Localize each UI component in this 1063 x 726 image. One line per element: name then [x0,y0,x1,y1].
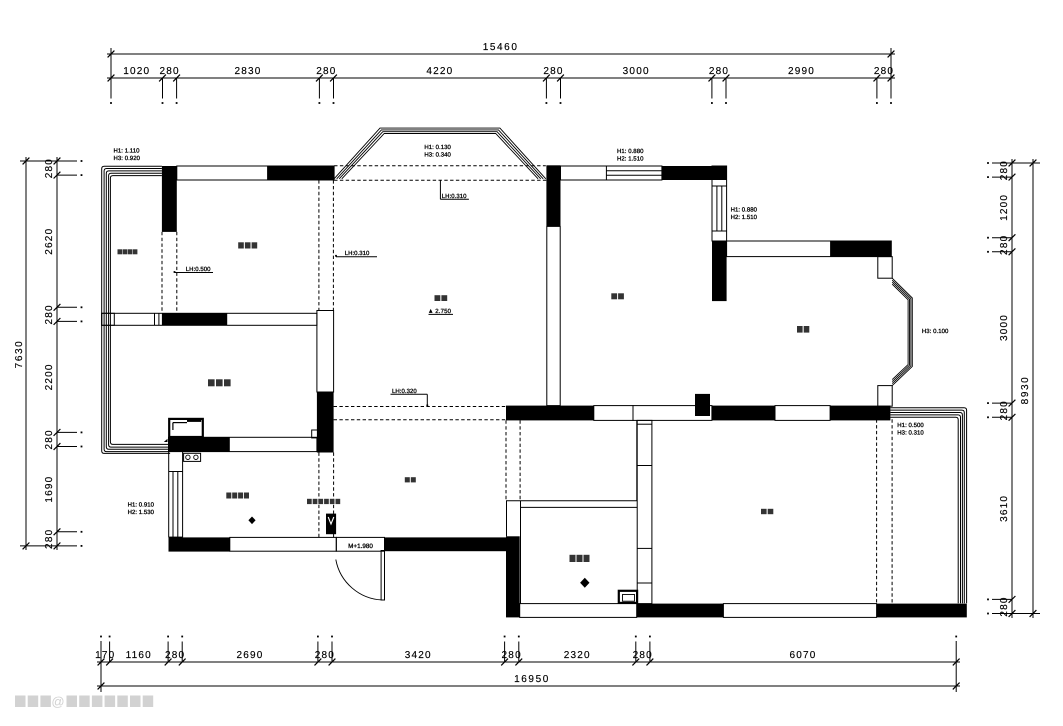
fridge / counter box [169,419,203,437]
wall black bath top west [506,406,594,421]
wall band bedroom door opening [775,406,830,421]
entry door swing arc [336,560,383,601]
electrical panel [326,514,336,535]
wall bath/bedroom (hollow, with joints) [637,420,652,603]
wall black segment study east [712,241,727,301]
dimension top segment line [107,77,895,79]
svg-text:2690: 2690 [236,650,263,661]
wall stub below east bay [878,386,892,407]
tick left boundary y=432.4 [54,429,61,436]
room label study [611,293,617,299]
svg-text:H3: 0.340: H3: 0.340 [424,151,451,158]
svg-text:280: 280 [44,429,55,449]
room label balcony NW [118,249,123,254]
svg-text:LH:0.310: LH:0.310 [442,193,467,200]
tick bottom boundary x=518.8 [515,659,522,666]
svg-text:280: 280 [999,160,1010,180]
tick right boundary y=177.1 [1009,174,1016,181]
shower step box [619,591,637,603]
tick left boundary y=307.3 [54,304,61,311]
svg-text:280: 280 [44,529,55,549]
svg-text:2620: 2620 [44,228,55,255]
tick bottom boundary x=504.6 [501,659,508,666]
annotation LH:0.320 with leader [391,393,428,395]
svg-text:LH:0.500: LH:0.500 [186,266,211,273]
svg-text:15460: 15460 [483,42,519,53]
svg-text:H1: 0.500: H1: 0.500 [897,422,924,429]
small white pier at west end [102,313,115,325]
bedroom east window wrap (5-line rounded) [890,408,966,604]
wall black segment top-left [267,166,334,180]
tick bottom boundary x=182.2 [179,659,186,666]
wall band corridor section [633,406,712,421]
svg-text:280: 280 [999,596,1010,616]
svg-text:LH:0.310: LH:0.310 [345,250,370,257]
tick left boundary y=161.0 [54,158,61,165]
svg-text:1200: 1200 [999,194,1010,221]
wall black segment bedroom2 top [162,313,227,325]
entry door leaf [381,551,384,601]
window in study east wall (4-line) [716,186,718,231]
column top-center concrete [546,165,560,226]
svg-text:280: 280 [999,400,1010,420]
svg-text:280: 280 [316,66,336,77]
svg-text:1690: 1690 [44,476,55,503]
living room level mark 2.750 [429,309,433,313]
svg-text:LH:0.320: LH:0.320 [392,388,417,395]
kitchen west wall [168,452,170,538]
room label dining [405,477,410,482]
tick top boundary x=876.9 [874,75,881,82]
wall black segment kitchen top [169,437,230,451]
dashed pair laundry west opening [505,420,507,500]
svg-text:280: 280 [999,235,1010,255]
entry door head box [336,537,384,551]
wall black entry bottom east [385,537,507,551]
svg-text:16950: 16950 [514,674,550,685]
svg-text:7630: 7630 [14,340,25,369]
wall band bedroom bottom [723,604,876,618]
tick right boundary y=237.7 [1009,234,1016,241]
svg-text:280: 280 [543,66,563,77]
shaft block [695,394,710,416]
svg-text:280: 280 [315,650,335,661]
wall black kitchen bottom [169,537,230,551]
west balcony window wrap (5-line rounded) [102,166,170,453]
dashed line bay north outer [334,165,546,167]
dimension left overall line 7630 [25,157,27,550]
svg-text:H1: 0.130: H1: 0.130 [424,144,451,151]
wall black segment south of study [712,406,775,421]
svg-text:H1: 0.880: H1: 0.880 [617,148,644,155]
dimension bottom overall line 16950 [97,685,960,687]
svg-text:8930: 8930 [1020,376,1031,405]
room label living room [435,295,441,301]
hall cabinet label [307,499,312,504]
wall top band of NE bedroom [727,241,892,257]
svg-text:H2: 1.510: H2: 1.510 [731,214,758,221]
tick top boundary x=546.4 [543,75,550,82]
tick left boundary y=531.8 [54,528,61,535]
tick right boundary y=163.0 [1009,160,1016,167]
wall living/study (hollow) [547,226,560,405]
column top-left concrete [162,166,177,232]
wall black bath west [506,536,520,617]
svg-text:280: 280 [165,650,185,661]
svg-text:3610: 3610 [999,495,1010,522]
tick bottom boundary x=649.9 [647,659,654,666]
wall black bedroom bottom east [877,604,967,618]
svg-text:H1: 0.880: H1: 0.880 [731,207,758,214]
annotation LH:0.310 (bay) with leader [439,180,441,199]
room label bedroom NE [797,326,803,333]
dashed line living south a [334,406,506,408]
east bay window (4-line) [892,278,912,385]
tick top boundary x=176.6 [173,75,180,82]
cooktop [184,453,201,461]
svg-text:3000: 3000 [623,66,650,77]
tick left boundary y=446.5 [54,443,61,450]
window top-right W in wall (4-line) [606,170,662,172]
kitchen west window (4-line) [172,472,174,538]
wall top band left section [177,166,334,180]
svg-text:2990: 2990 [788,66,815,77]
wall band entry bottom [230,537,336,551]
wall black segment NE bedroom top [830,241,891,257]
marker triangle at kitchen corner [164,439,168,442]
interior wall column strip upper (hollow) [317,311,334,393]
room label bedroom W [208,379,215,386]
dimension right segment line [1011,159,1013,618]
tick top boundary x=726.0 [723,75,730,82]
door notch at column west face [312,430,320,438]
tick right boundary y=403.1 [1009,400,1016,407]
watermark gray [15,696,26,708]
svg-text:280: 280 [44,304,55,324]
bath inner partition lines [506,500,637,502]
dashed pair kitchen/dining opening [318,453,320,538]
tick bottom boundary x=168.1 [165,659,172,666]
tick left boundary y=175.1 [54,172,61,179]
tick right boundary y=417.3 [1009,414,1016,421]
wall band bedroom2 top (y313) [102,313,317,325]
svg-text:4220: 4220 [426,66,453,77]
tick top boundary x=333.5 [330,75,337,82]
dashed line bay north inner [334,179,560,181]
svg-text:H2: 1.530: H2: 1.530 [128,509,155,516]
dimension top overall line 15460 [107,53,895,55]
wall black segment top-right [662,166,727,180]
wall band bath bottom [520,604,637,618]
room label bedroom SE [761,509,767,514]
tick bottom boundary x=332.0 [329,659,336,666]
svg-text:280: 280 [159,66,179,77]
svg-text:280: 280 [709,66,729,77]
svg-text:280: 280 [502,650,522,661]
tick bottom boundary x=109.6 [106,659,113,666]
svg-text:3000: 3000 [999,314,1010,341]
svg-text:H2: 1.510: H2: 1.510 [617,155,644,162]
dashed pair living west opening [318,180,320,310]
column mid concrete [317,392,334,453]
dimension bottom segment line [97,661,960,663]
tick top boundary x=162.5 [159,75,166,82]
kitchen floor drain [248,517,255,525]
annotation LH:0.500 with leader [174,271,176,273]
tick bottom boundary x=101.0 [98,659,105,666]
svg-text:1160: 1160 [126,650,152,661]
tick bottom boundary x=956.2 [953,659,960,666]
north bay window of living room (4-line) [334,128,546,179]
svg-text:280: 280 [874,66,894,77]
tick bottom boundary x=635.8 [632,659,639,666]
svg-text:3420: 3420 [405,650,432,661]
svg-text:2200: 2200 [44,363,55,390]
svg-text:H3: 0.310: H3: 0.310 [897,429,924,436]
room label kitchen [226,493,231,499]
tick left boundary y=545.9 [54,543,61,550]
wall black bedroom bottom west [637,604,724,618]
wall black segment bedroom top [830,406,890,421]
svg-text:H3: 0.920: H3: 0.920 [114,155,141,162]
svg-text:170: 170 [95,650,115,661]
divider in bedroom2 top wall [154,313,156,325]
room label bedroom NW [238,242,244,248]
svg-text:280: 280 [633,650,653,661]
bath floor drain [580,578,589,588]
svg-text:2830: 2830 [234,66,261,77]
dimension left segment line [56,157,58,550]
tick top boundary x=560.5 [557,75,564,82]
dimension right overall line 8930 [1032,159,1034,618]
dashed pair bedroom bay line [876,419,878,603]
room label bathroom [570,555,576,562]
tick left boundary y=321.4 [54,318,61,325]
tick top boundary x=711.9 [709,75,716,82]
tick right boundary y=251.8 [1009,248,1016,255]
tick top boundary x=111.0 [108,75,115,82]
wall band bath top window section [594,406,633,421]
svg-text:M+1.980: M+1.980 [348,543,373,550]
tick right boundary y=613.5 [1009,610,1016,617]
dashed line living south b [334,419,506,421]
svg-text:6070: 6070 [789,650,816,661]
tick top boundary x=891.0 [888,75,895,82]
svg-text:H1: 0.910: H1: 0.910 [128,502,155,509]
svg-text:1020: 1020 [123,66,150,77]
wall band bedroom2 bottom / kitchen top [169,437,317,451]
dashed pair below NW column [161,232,163,313]
svg-text:2320: 2320 [564,650,591,661]
svg-text:@: @ [51,694,64,709]
svg-text:H3: 0.100: H3: 0.100 [922,328,949,335]
tick right boundary y=599.4 [1009,596,1016,603]
tick bottom boundary x=317.9 [315,659,322,666]
annotation LH:0.310 (living west) [335,255,337,257]
wall top band right section (with window span) [561,166,662,180]
svg-text:H1: 1.110: H1: 1.110 [114,148,141,155]
svg-text:280: 280 [44,158,55,178]
laundry east line [636,420,638,500]
tick top boundary x=319.4 [316,75,323,82]
wall stub above east bay [878,257,892,279]
wall right of study (band with window) [712,166,727,241]
